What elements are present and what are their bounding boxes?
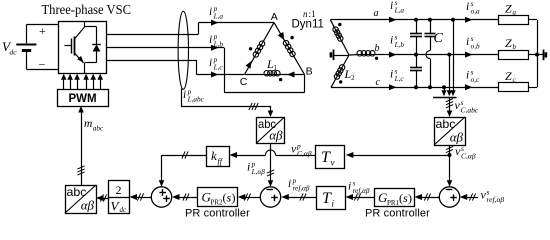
svg-text:abc: abc <box>93 125 104 133</box>
svg-text:i: i <box>288 178 291 190</box>
svg-text:T: T <box>322 190 332 207</box>
svg-text:s: s <box>353 179 356 187</box>
svg-text:i: i <box>466 1 469 13</box>
svg-text:Z: Z <box>505 69 512 83</box>
svg-text:T: T <box>321 149 331 166</box>
svg-text:s: s <box>471 68 474 76</box>
svg-text:Dyn11: Dyn11 <box>292 19 324 31</box>
svg-text:PR1: PR1 <box>387 199 400 207</box>
svg-text:v: v <box>331 158 335 168</box>
svg-text:L,b: L,b <box>213 41 224 49</box>
svg-text:L,c: L,c <box>394 75 405 83</box>
svg-text:i: i <box>390 35 393 47</box>
svg-text:Z: Z <box>505 36 512 50</box>
svg-text:m: m <box>84 118 92 130</box>
svg-text:2: 2 <box>351 74 355 82</box>
svg-text:L,αβ: L,αβ <box>251 168 266 176</box>
svg-text:p: p <box>213 56 218 64</box>
svg-text:αβ: αβ <box>269 128 283 143</box>
svg-text:i: i <box>209 57 212 69</box>
svg-text:+: + <box>39 24 46 38</box>
svg-text::1: :1 <box>309 9 316 19</box>
svg-text:PR2: PR2 <box>211 199 224 207</box>
svg-text:o,c: o,c <box>471 76 480 84</box>
svg-text:i: i <box>348 181 351 193</box>
svg-text:): ) <box>232 191 236 205</box>
svg-text:i: i <box>466 70 469 82</box>
svg-text:L,abc: L,abc <box>187 96 205 104</box>
svg-text:ref,αβ: ref,αβ <box>293 185 310 193</box>
svg-text:p: p <box>251 160 256 168</box>
svg-text:dc: dc <box>120 206 128 214</box>
svg-text:A: A <box>271 11 278 23</box>
svg-text:k: k <box>211 148 217 163</box>
svg-text:): ) <box>408 191 412 205</box>
svg-text:a: a <box>513 8 517 16</box>
svg-text:i: i <box>247 162 250 174</box>
svg-text:i: i <box>390 0 393 12</box>
svg-text:b: b <box>513 43 517 51</box>
svg-text:ref,αβ: ref,αβ <box>487 195 505 204</box>
svg-text:B: B <box>306 66 313 78</box>
svg-text:PWM: PWM <box>68 93 96 105</box>
svg-text:i: i <box>209 34 212 46</box>
svg-text:1: 1 <box>274 64 278 72</box>
svg-text:p: p <box>187 88 192 96</box>
svg-text:s: s <box>395 33 398 41</box>
svg-text:i: i <box>390 69 393 81</box>
svg-text:i: i <box>183 89 186 101</box>
svg-text:p: p <box>292 177 297 185</box>
svg-text:2: 2 <box>116 183 122 197</box>
svg-text:n: n <box>303 9 308 19</box>
svg-text:−: − <box>39 58 46 72</box>
svg-text:L,c: L,c <box>213 64 224 72</box>
svg-text:L,a: L,a <box>394 7 405 15</box>
svg-text:C: C <box>434 31 444 46</box>
svg-text:ref,αβ: ref,αβ <box>353 187 370 195</box>
svg-text:C: C <box>240 76 248 88</box>
svg-text:C,αβ: C,αβ <box>297 149 312 158</box>
svg-text:PR controller: PR controller <box>185 208 250 220</box>
svg-text:p: p <box>213 33 218 41</box>
svg-text:L,a: L,a <box>213 13 224 21</box>
svg-text:Three-phase VSC: Three-phase VSC <box>42 2 132 17</box>
svg-text:s: s <box>471 35 474 43</box>
svg-text:αβ: αβ <box>81 198 95 213</box>
svg-text:c: c <box>376 77 381 88</box>
svg-text:p: p <box>213 5 218 13</box>
svg-text:o,a: o,a <box>471 8 480 16</box>
svg-text:a: a <box>374 8 379 19</box>
svg-text:C,αβ: C,αβ <box>461 152 476 161</box>
svg-text:dc: dc <box>10 48 18 57</box>
svg-text:i: i <box>209 6 212 18</box>
svg-text:αβ: αβ <box>450 130 464 145</box>
svg-text:C,abc: C,abc <box>461 106 479 115</box>
svg-text:PR controller: PR controller <box>365 208 430 220</box>
svg-text:i: i <box>466 36 469 48</box>
svg-text:L,b: L,b <box>394 41 405 49</box>
svg-text:o,b: o,b <box>471 43 480 51</box>
svg-text:b: b <box>375 43 380 54</box>
svg-text:s: s <box>395 67 398 75</box>
svg-text:Z: Z <box>505 1 512 15</box>
